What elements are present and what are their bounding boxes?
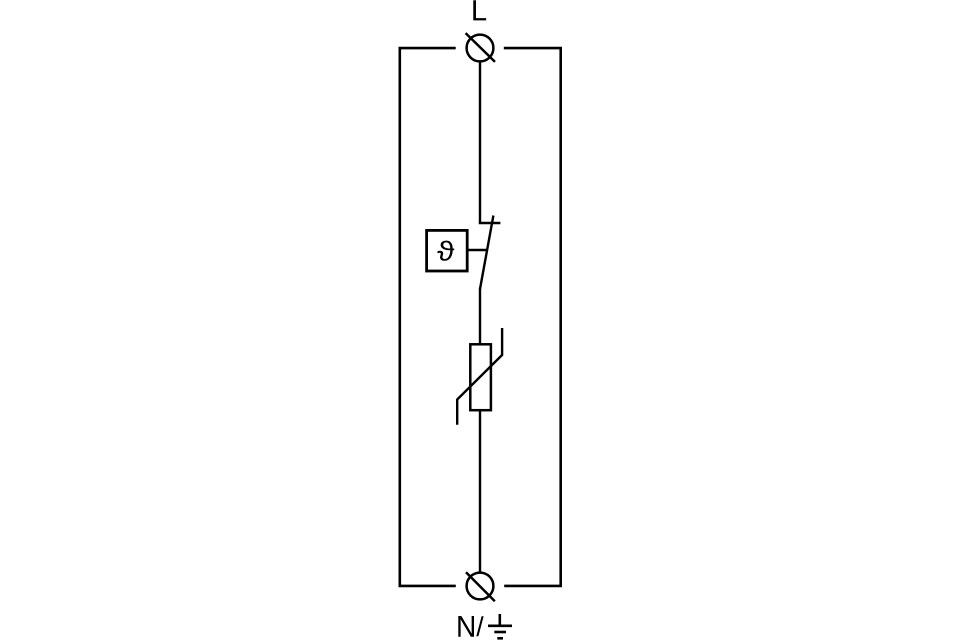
wire: L terminal to disconnector <box>479 61 481 223</box>
thermal disconnector switch blade <box>480 216 493 290</box>
enclosure outline <box>400 48 561 586</box>
link: sensor to switch blade <box>468 249 487 251</box>
terminal X1 (L, top) <box>466 33 495 62</box>
varistor diagonal stroke <box>457 328 502 425</box>
node label slash <box>476 616 483 636</box>
thermal sensor symbol ϑ <box>437 241 454 261</box>
thermal sensor box <box>427 230 468 271</box>
ground symbol <box>488 614 512 638</box>
terminal X2 (N/PE, bottom) <box>466 572 495 601</box>
node N/PE label <box>458 616 474 637</box>
wire: varistor to N terminal <box>479 410 481 572</box>
varistor body <box>470 344 491 410</box>
node L label <box>473 0 486 20</box>
wire: disconnector to varistor <box>479 288 481 344</box>
thermal disconnector switch contact <box>479 222 501 224</box>
